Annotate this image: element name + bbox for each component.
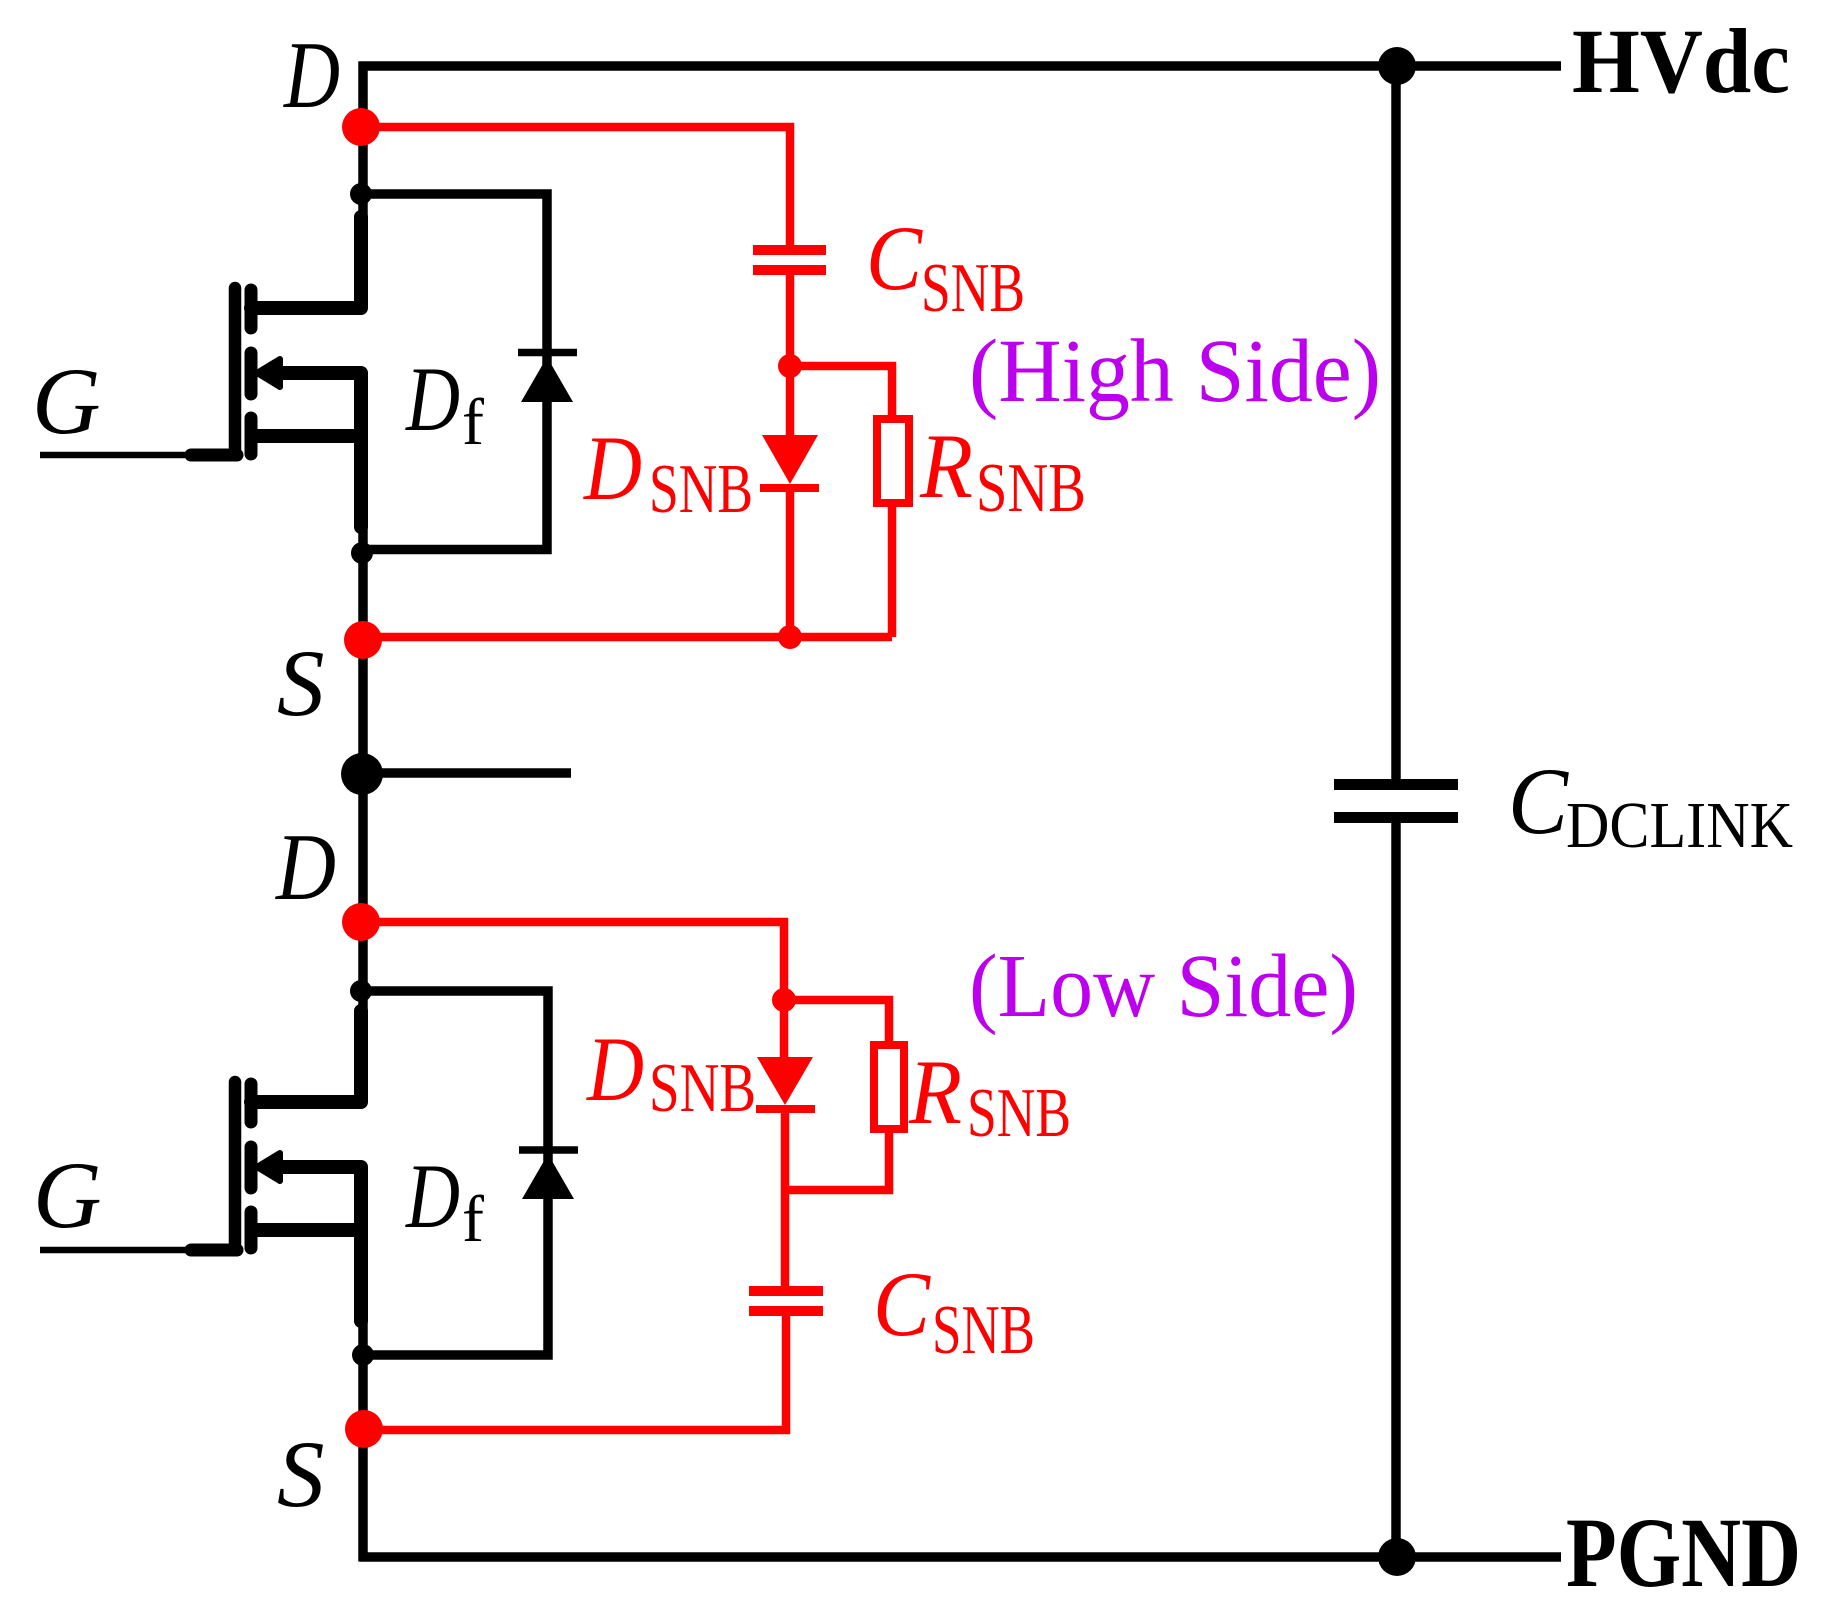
body arrow <box>257 1153 280 1181</box>
gate lead thick <box>191 1244 237 1257</box>
junction: drain node dot red (high side) <box>342 108 380 146</box>
svg-text:f: f <box>462 386 484 459</box>
drain elbow <box>251 1011 361 1102</box>
svg-text:D: D <box>585 1018 644 1120</box>
svg-text:D: D <box>404 1145 460 1247</box>
channel segment (body) <box>245 1147 258 1188</box>
wire: Df loop (low side) <box>361 991 548 1355</box>
wire: resistor branch bottom (high side) <box>888 501 897 637</box>
wire: resistor branch bottom (low side) <box>785 1127 889 1190</box>
source stub <box>251 429 361 443</box>
svg-text:SNB: SNB <box>921 250 1025 327</box>
svg-text:HVdc: HVdc <box>1572 10 1790 112</box>
capacitor C_SNB (low side) <box>749 1291 823 1311</box>
wire: snubber top red (high side) <box>361 127 790 246</box>
svg-text:G: G <box>32 348 101 454</box>
junction: source/Df node dot (high side) <box>351 542 373 564</box>
junction: source node dot red (low side) <box>345 1410 383 1448</box>
wire: cap to snubber node (high side) <box>786 270 795 366</box>
wire: switch-node stub <box>362 768 571 778</box>
svg-text:SNB: SNB <box>649 451 753 528</box>
diode Df (low side) <box>519 1150 578 1199</box>
transistor Q2 low-side MOSFET <box>40 1011 361 1321</box>
gate lead thin <box>40 1247 195 1254</box>
capacitor C_DCLINK <box>1334 785 1458 818</box>
wire: PGND bottom rail <box>360 1552 1562 1562</box>
body stub <box>270 366 361 380</box>
svg-text:SNB: SNB <box>649 1050 756 1127</box>
junction: drain/Df node dot (high side) <box>350 183 372 205</box>
svg-text:R: R <box>919 415 973 517</box>
svg-text:(Low Side): (Low Side) <box>969 937 1358 1036</box>
svg-text:D: D <box>274 814 336 920</box>
source vertical <box>354 373 368 527</box>
junction: source node dot red (high side) <box>344 621 382 659</box>
gate bar <box>229 288 242 451</box>
drain elbow <box>251 217 361 308</box>
wire: snubber bottom red (high side) <box>363 633 892 642</box>
wire: right DC-link rail (lower segment) <box>1391 823 1401 1557</box>
junction: source/Df node dot (low side) <box>352 1344 374 1366</box>
svg-text:f: f <box>462 1183 484 1256</box>
resistor R_SNB (high side) <box>877 419 909 503</box>
transistor Q1 high-side MOSFET <box>40 217 361 527</box>
resistor R_SNB (low side) <box>874 1045 904 1129</box>
gate lead thin <box>40 452 195 459</box>
body arrow <box>257 359 280 387</box>
svg-text:D: D <box>282 22 340 128</box>
junction: switch-node dot <box>341 753 383 795</box>
wire: source column (high side to low side drain) <box>358 527 368 1012</box>
junction: drain node dot red (low side) <box>342 903 380 941</box>
wire: resistor branch top (high side) <box>790 366 892 421</box>
wire: resistor branch top (low side) <box>784 1000 889 1047</box>
svg-text:C: C <box>1508 748 1570 854</box>
svg-text:D: D <box>404 348 460 450</box>
wire: cap to bottom corner (low side) <box>364 1311 786 1430</box>
channel segment (source) <box>245 1212 258 1248</box>
svg-text:R: R <box>908 1041 962 1143</box>
diode Df (high side) <box>518 353 577 403</box>
svg-text:S: S <box>277 630 325 736</box>
junction: snubber node dot (low side) <box>772 988 796 1012</box>
svg-text:SNB: SNB <box>967 1075 1071 1152</box>
source stub <box>251 1223 361 1237</box>
svg-text:C: C <box>866 207 923 309</box>
svg-text:G: G <box>33 1142 102 1248</box>
junction: snubber node dot (high side) <box>778 354 802 378</box>
wire: right DC-link rail (upper segment) <box>1391 66 1401 779</box>
junction: drain/Df node dot (low side) <box>350 980 372 1002</box>
body stub <box>270 1160 361 1174</box>
svg-text:DCLINK: DCLINK <box>1566 789 1793 862</box>
gate lead thick <box>191 449 237 462</box>
capacitor C_SNB (high side) <box>753 250 826 270</box>
channel segment (drain) <box>245 290 258 328</box>
channel segment (source) <box>245 418 258 454</box>
wire: left drain lead from HVdc rail (high side) <box>358 62 368 219</box>
svg-text:S: S <box>277 1421 325 1527</box>
source vertical <box>354 1167 368 1321</box>
svg-text:D: D <box>582 417 642 519</box>
svg-text:SNB: SNB <box>976 450 1086 527</box>
junction: PGND node dot <box>1378 1538 1416 1576</box>
gate bar <box>229 1082 242 1245</box>
wire: Df loop (high side) <box>361 194 547 550</box>
junction: snubber bottom dot (high side) <box>778 625 802 649</box>
svg-text:SNB: SNB <box>932 1292 1035 1369</box>
svg-text:PGND: PGND <box>1566 1497 1801 1608</box>
diode D_SNB (low side) <box>756 1000 815 1291</box>
diode D_SNB (high side) <box>760 366 819 637</box>
wire: snubber top red (low side) <box>361 922 784 1000</box>
junction: HVdc node dot <box>1378 47 1416 85</box>
wire: HVdc top rail <box>359 61 1562 71</box>
channel segment (body) <box>245 353 258 394</box>
wire: source column (low side) <box>358 1321 368 1562</box>
svg-text:C: C <box>873 1253 932 1355</box>
svg-text:(High Side): (High Side) <box>969 322 1381 421</box>
channel segment (drain) <box>245 1084 258 1122</box>
